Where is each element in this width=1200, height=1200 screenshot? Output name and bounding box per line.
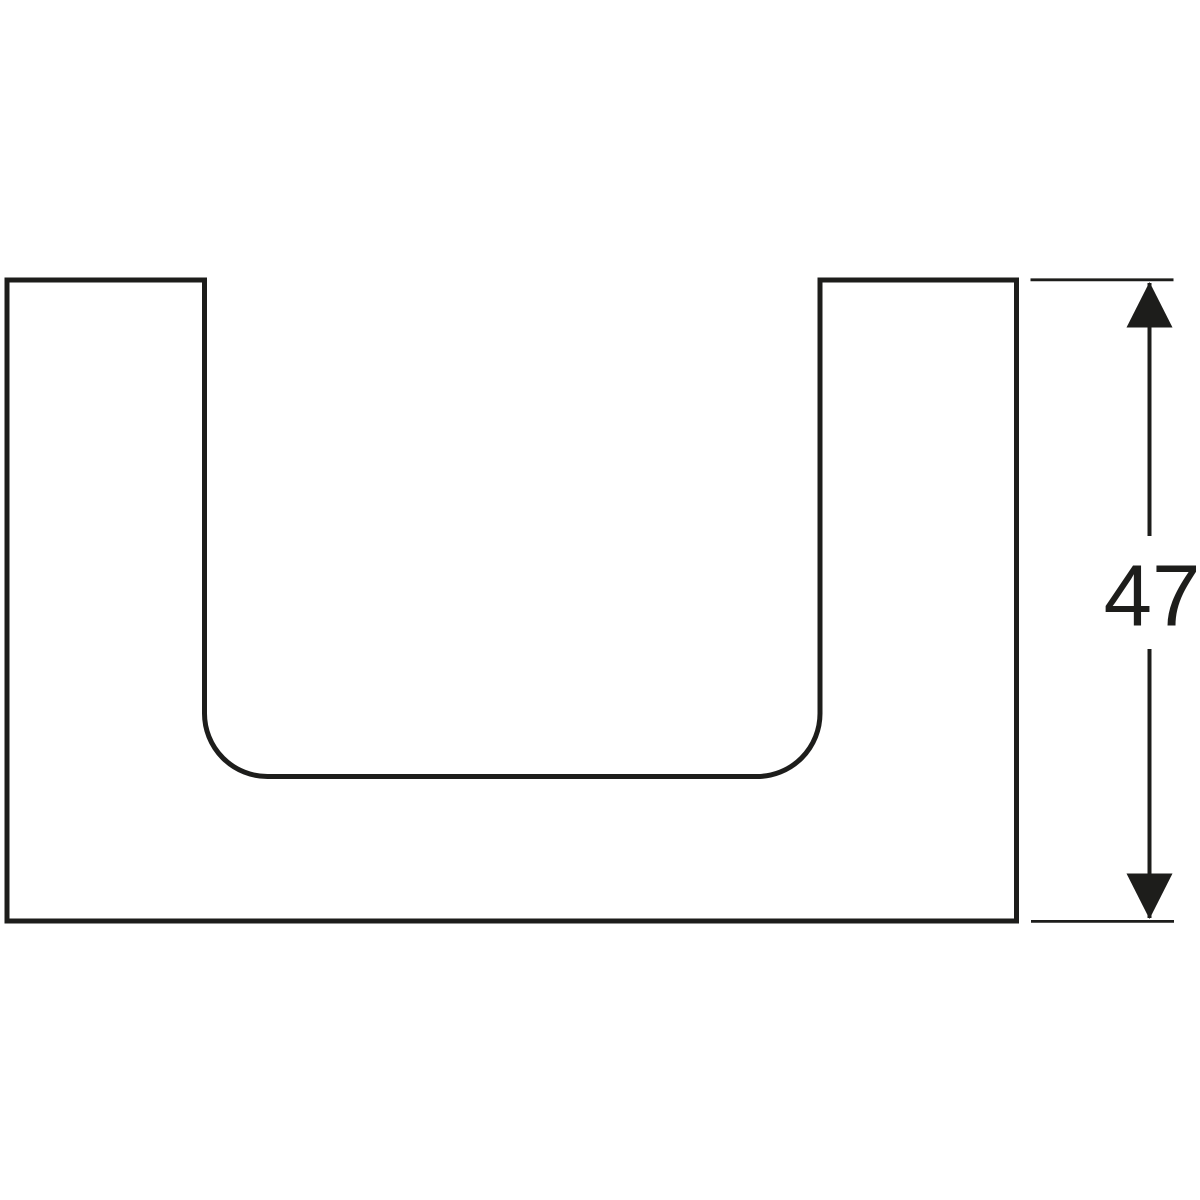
extension line top — [1031, 278, 1174, 281]
arrowhead up — [1127, 282, 1173, 328]
extension line bottom — [1031, 920, 1174, 923]
arrowhead down — [1127, 874, 1173, 920]
dimension line lower segment — [1148, 649, 1152, 918]
svg-text:47: 47 — [1104, 548, 1200, 645]
U-channel profile outline — [7, 280, 1017, 921]
dimension line upper segment — [1148, 283, 1152, 536]
